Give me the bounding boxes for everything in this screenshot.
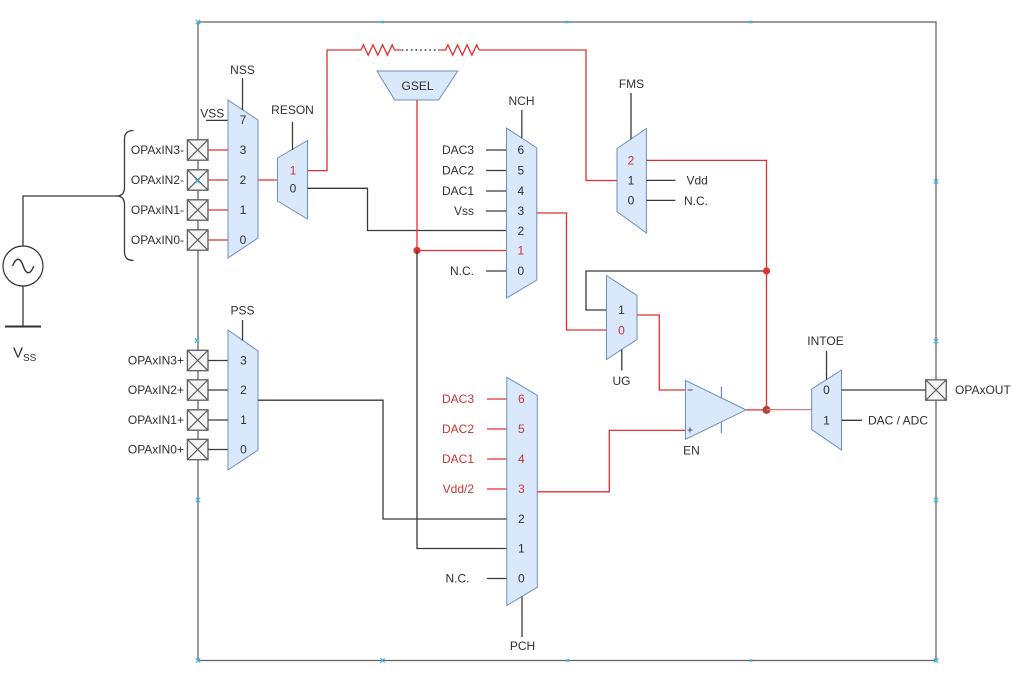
wire OPAxIN2- to NSS [208,179,228,181]
wire NCH output to UG 0 [537,213,607,330]
svg-text:OPAxIN1-: OPAxIN1- [131,203,184,217]
pin OPAxIN1- [187,200,208,220]
wire INTOE 0 to OPAxOUT [842,389,927,391]
pin OPAxIN0+ [187,439,208,459]
pin OPAxIN2- [187,170,208,190]
svg-text:3: 3 [517,204,524,218]
NCH input stubs [486,150,507,271]
svg-text:1: 1 [517,244,524,258]
PSS input stubs [208,361,228,450]
svg-text:0: 0 [823,383,830,397]
svg-text:DAC3: DAC3 [442,392,474,406]
wire node to NCH 1 [417,250,507,252]
attenuator GSEL [377,71,458,100]
wire source to ground [22,286,24,326]
mux PCH [507,377,538,605]
voltage source AC [3,246,43,286]
svg-text:2: 2 [240,383,247,397]
wire source top [23,196,117,246]
svg-text:2: 2 [517,224,524,238]
mux NCH [507,128,537,298]
svg-text:PSS: PSS [230,303,254,317]
svg-text:VSS: VSS [13,345,37,365]
svg-text:N.C.: N.C. [684,194,708,208]
svg-text:4: 4 [517,184,524,198]
svg-text:OPAxIN2+: OPAxIN2+ [128,383,184,397]
PCH input stubs red [487,399,507,489]
resistor R2 [438,45,479,55]
dotted continuation [402,49,436,51]
svg-text:OPAxIN2-: OPAxIN2- [131,173,184,187]
INTOE 1 stub [842,419,863,421]
pin OPAxIN2+ [187,380,208,400]
pin OPAxOUT [926,380,947,400]
PSS select line [242,320,244,341]
UG select line [621,350,623,371]
RESON select line [292,122,294,150]
wire node to PCH 1 [417,251,507,549]
wire GSEL to node [416,100,418,251]
wire node to INTOE [767,409,812,411]
wire OPAxIN3- to NSS [208,149,228,151]
wire OPAxIN0- to NSS [208,239,228,241]
resistor R1 [361,45,401,55]
INTOE select line [826,351,828,380]
svg-text:OPAxIN3+: OPAxIN3+ [128,354,184,368]
demux INTOE [812,370,842,450]
svg-text:5: 5 [517,164,524,178]
svg-text:1: 1 [240,413,247,427]
svg-text:DAC3: DAC3 [442,143,474,157]
PSS pin OPAxIN3+ [187,350,208,370]
wire NSS output to RESON [258,179,278,181]
svg-text:1: 1 [618,303,625,317]
FMS NC stub [646,199,675,201]
NSS select line [242,78,244,110]
PCH NC stub [487,578,507,580]
pin OPAxIN3- [187,140,208,160]
PCH select line [521,597,523,638]
svg-text:3: 3 [240,143,247,157]
svg-text:FMS: FMS [619,77,644,91]
NCH select line [521,110,523,138]
svg-text:2: 2 [628,154,635,168]
junction node GSEL [413,247,420,254]
svg-text:N.C.: N.C. [450,264,474,278]
svg-text:3: 3 [240,354,247,368]
svg-text:INTOE: INTOE [807,334,843,348]
svg-text:5: 5 [518,422,525,436]
svg-text:EN: EN [683,444,700,458]
svg-text:Vdd/2: Vdd/2 [443,482,475,496]
junction node feedback [763,267,770,274]
wire RESON 0 to NCH 2 [308,188,507,230]
wire node to UG 1 [586,271,767,310]
svg-text:0: 0 [518,572,525,586]
wire RESON 1 to feedback resistors [308,50,362,171]
svg-text:PCH: PCH [510,639,535,653]
demux RESON [278,141,308,220]
svg-text:1: 1 [628,174,635,188]
svg-text:OPAxIN1+: OPAxIN1+ [128,413,184,427]
svg-text:1: 1 [823,414,830,428]
wire opamp output [746,409,767,411]
svg-text:RESON: RESON [271,103,314,117]
wire VSS stub to NSS 7 [206,119,228,121]
svg-text:DAC / ADC: DAC / ADC [868,414,928,428]
mux UG [607,276,638,360]
svg-text:7: 7 [240,113,247,127]
svg-text:1: 1 [240,203,247,217]
svg-text:OPAxIN0+: OPAxIN0+ [128,443,184,457]
wire UG output to opamp inverting [637,315,686,390]
svg-text:0: 0 [618,323,625,337]
FMS Vdd stub [646,179,675,181]
svg-text:NSS: NSS [230,63,255,77]
svg-text:0: 0 [240,443,247,457]
demux FMS [617,129,646,233]
svg-text:OPAxIN3-: OPAxIN3- [131,143,184,157]
svg-text:DAC1: DAC1 [442,184,474,198]
svg-text:3: 3 [518,482,525,496]
op-amp EN [686,380,747,439]
svg-text:OPAxIN0-: OPAxIN0- [131,233,184,247]
svg-text:1: 1 [518,542,525,556]
svg-text:Vss: Vss [454,204,474,218]
pin OPAxIN1+ [187,410,208,430]
svg-text:UG: UG [613,374,631,388]
mux PSS [228,330,258,470]
mux NSS [228,100,258,258]
ground [5,326,41,328]
IC boundary [198,22,936,661]
svg-text:0: 0 [290,182,297,196]
junction node opamp out [763,406,771,414]
svg-text:4: 4 [518,452,525,466]
pin OPAxIN0- [187,230,208,250]
wire FMS 2 to output node [646,160,766,409]
connection points [195,20,938,663]
wire OPAxIN1- to NSS [208,209,228,211]
wire PSS output to PCH 2 [258,400,507,519]
svg-text:VSS: VSS [200,107,224,121]
brace group inputs [117,131,134,261]
svg-text:0: 0 [240,233,247,247]
wire feedback to FMS [479,50,617,181]
svg-text:OPAxOUT: OPAxOUT [955,383,1011,397]
svg-text:0: 0 [628,194,635,208]
svg-text:NCH: NCH [509,94,535,108]
svg-text:2: 2 [240,173,247,187]
svg-text:0: 0 [517,264,524,278]
wire PCH output to opamp noninverting [537,430,685,491]
svg-text:DAC2: DAC2 [442,164,474,178]
svg-text:GSEL: GSEL [401,79,433,93]
svg-text:N.C.: N.C. [446,572,470,586]
svg-text:DAC2: DAC2 [442,422,474,436]
svg-text:DAC1: DAC1 [442,452,474,466]
svg-text:Vdd: Vdd [687,174,708,188]
svg-text:6: 6 [518,392,525,406]
FMS select line [630,93,632,139]
svg-text:6: 6 [517,143,524,157]
svg-text:1: 1 [290,163,297,177]
svg-text:2: 2 [518,512,525,526]
